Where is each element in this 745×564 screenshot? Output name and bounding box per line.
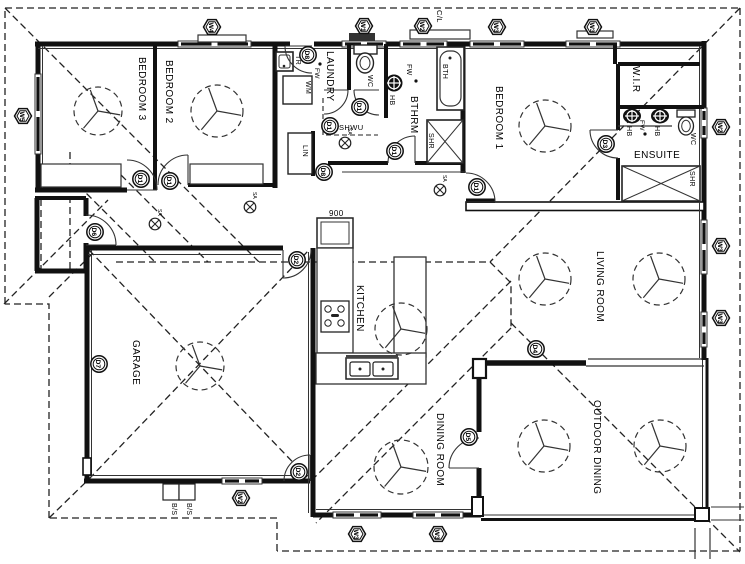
svg-text:900: 900 — [329, 209, 344, 218]
svg-text:D1: D1 — [355, 103, 362, 112]
laundry floor waste dot — [318, 62, 321, 65]
right exterior wall — [702, 41, 707, 360]
window tag W4 — [204, 20, 221, 35]
floor waste FW ensuite — [643, 132, 646, 135]
door tag D1 bedroom1 — [469, 179, 485, 195]
window tag W5 — [15, 109, 32, 124]
ceiling fan bedroom 3 — [74, 87, 122, 135]
shower SHR ensuite — [622, 166, 700, 201]
kitchen double sink — [346, 355, 398, 379]
garage right wall inner liner — [308, 252, 310, 513]
ensuite vanity edge — [618, 125, 672, 127]
svg-text:D1: D1 — [136, 175, 143, 184]
window W3 living lower — [701, 312, 707, 347]
toilet WC ensuite — [677, 110, 695, 135]
svg-text:D2: D2 — [292, 256, 299, 265]
svg-text:ENSUITE: ENSUITE — [634, 150, 680, 161]
laundry trough TR — [276, 52, 293, 71]
door tag D2 garage rear — [291, 464, 307, 480]
svg-text:SA: SA — [156, 209, 162, 216]
garage left wall — [85, 246, 90, 481]
ridge line — [116, 261, 490, 263]
svg-text:W3: W3 — [716, 314, 723, 324]
svg-text:W5: W5 — [18, 112, 25, 122]
smoke alarm living hall — [434, 175, 447, 196]
porch hip diagonal — [4, 200, 108, 304]
door tag D4 living — [528, 341, 544, 357]
svg-text:SHR: SHR — [427, 133, 434, 149]
corridor bulkhead line — [342, 171, 466, 173]
downpipe line right — [709, 528, 711, 559]
svg-text:WC: WC — [689, 133, 696, 145]
window W3 bedroom1 left — [470, 41, 524, 47]
svg-text:D6: D6 — [90, 228, 97, 237]
window tag W3 dining right — [430, 527, 447, 542]
svg-text:W3: W3 — [352, 530, 359, 540]
window W2 ensuite wc — [701, 108, 707, 138]
wc-bathroom divider wall — [384, 44, 388, 118]
bedroom1 west wall — [461, 44, 466, 173]
wc west wall — [347, 44, 351, 90]
dining-outdoor divider lower — [477, 468, 482, 517]
svg-text:HB: HB — [625, 126, 632, 137]
outdoor dining bottom edge liner — [481, 514, 703, 516]
door arc laundry external — [285, 46, 312, 73]
svg-text:D8: D8 — [319, 168, 326, 177]
svg-text:LAUNDRY: LAUNDRY — [324, 51, 335, 101]
svg-text:W3: W3 — [433, 530, 440, 540]
wir west wall upper — [613, 44, 617, 64]
ceiling fan dining room — [374, 440, 428, 494]
smoke alarm entry — [149, 209, 162, 230]
floor waste FW bathroom — [414, 79, 417, 82]
window tag W3 dining left — [349, 527, 366, 542]
kitchen bench west run — [317, 248, 353, 353]
door tag D8 hall — [316, 164, 332, 180]
porch bottom wall — [35, 269, 86, 274]
door arc bathroom — [388, 136, 415, 163]
svg-text:D8: D8 — [303, 51, 310, 60]
paving edge line upper — [711, 506, 744, 508]
door arc laundry-hall — [324, 90, 348, 114]
door tag D7 garage side — [91, 356, 107, 372]
door tag D6 entry — [87, 224, 103, 240]
C/L nib above bathroom window — [410, 30, 470, 39]
window tag W3 living lower — [713, 311, 730, 326]
linen cupboard — [288, 133, 312, 174]
svg-text:D1: D1 — [165, 177, 172, 186]
garage cross brace 1 — [89, 250, 309, 479]
toilet WC bathroom — [354, 45, 377, 73]
left exterior wall lower — [36, 154, 41, 192]
door arc ensuite — [590, 130, 618, 158]
door tag D1 bedroom2 — [162, 173, 178, 189]
svg-text:W3: W3 — [588, 23, 595, 33]
svg-text:FW: FW — [313, 68, 320, 79]
svg-text:DINING ROOM: DINING ROOM — [434, 413, 445, 486]
kitchen pantry column — [317, 218, 353, 248]
svg-text:HB: HB — [388, 95, 395, 106]
garage top wall — [84, 246, 283, 251]
ensuite west wall — [616, 158, 620, 200]
left exterior wall upper — [36, 44, 41, 74]
door arc dining-outdoor — [449, 438, 479, 468]
paving edge line lower — [711, 519, 744, 521]
svg-text:LIN: LIN — [301, 145, 308, 157]
hand basin HB ensuite left — [623, 109, 641, 124]
ceiling fan outdoor west — [518, 420, 570, 472]
svg-text:B/S: B/S — [170, 503, 177, 515]
roof outline right edge — [739, 8, 741, 551]
door tag D1 bedroom3 — [133, 171, 149, 187]
svg-text:D1: D1 — [472, 183, 479, 192]
svg-text:W2: W2 — [716, 123, 723, 133]
washing machine WM — [283, 76, 312, 104]
robe bedroom 3 — [41, 164, 121, 187]
svg-text:W3: W3 — [492, 23, 499, 33]
ceiling fan bedroom 1 — [519, 100, 571, 152]
valley corner connector garage — [49, 481, 87, 518]
valley line to kitchen wall — [313, 281, 511, 479]
hip line top-left — [5, 8, 259, 262]
hand basin HB bathroom — [386, 75, 403, 92]
outdoor corner jamb — [473, 359, 486, 378]
window tag W1 — [356, 19, 373, 34]
entry valley diagonal 1 — [71, 178, 155, 262]
wir south wall — [618, 62, 700, 66]
wc top nib — [349, 33, 375, 41]
outdoor dining bottom edge — [481, 518, 708, 521]
roof outline bottom edge — [277, 550, 740, 552]
door arc garage rear — [284, 455, 310, 481]
door tag D1 wc — [352, 99, 368, 115]
door arc bedroom3 — [127, 160, 157, 190]
svg-text:HB: HB — [653, 126, 660, 137]
window W5 bedroom3 — [35, 74, 41, 154]
door tag D3 ensuite — [598, 136, 614, 152]
door arc entry — [86, 215, 116, 245]
svg-text:WC: WC — [366, 75, 373, 87]
window tag W2 garage — [233, 491, 250, 506]
laundry dashed partition — [323, 98, 378, 135]
svg-text:SA: SA — [346, 128, 352, 135]
entry east wall lower — [84, 243, 89, 271]
svg-text:W1: W1 — [359, 22, 366, 32]
svg-text:D4: D4 — [531, 345, 538, 354]
bedroom3 wing bottom wall — [35, 188, 127, 193]
window W2 bathroom — [400, 41, 447, 47]
shower SHR bathroom — [427, 120, 463, 163]
downpipe line left — [694, 528, 696, 559]
svg-text:W2: W2 — [418, 22, 425, 32]
roof outline left lower step — [5, 304, 49, 518]
porch hip diagonal 2 — [49, 246, 100, 297]
svg-text:B/S: B/S — [185, 503, 192, 515]
svg-text:WM: WM — [304, 81, 311, 94]
bedroom3-bedroom2 divider wall — [153, 44, 157, 190]
dining-outdoor divider upper — [477, 362, 482, 432]
dining bottom wall inner liner — [316, 509, 479, 511]
window W3 bedroom1 right — [566, 41, 620, 47]
svg-text:LIVING ROOM: LIVING ROOM — [594, 251, 605, 322]
garage bottom wall inner liner — [89, 475, 308, 477]
top wall inner liner — [38, 48, 700, 50]
porch roof dashed vertical 2 — [69, 152, 71, 271]
outdoor dining right edge liner — [702, 358, 704, 516]
garage B/S meter boxes — [163, 484, 195, 500]
svg-text:BEDROOM 3: BEDROOM 3 — [136, 57, 147, 121]
svg-text:D1: D1 — [390, 147, 397, 156]
svg-text:D1: D1 — [325, 122, 332, 131]
ceiling fan living room west — [519, 253, 571, 305]
svg-text:BTHRM: BTHRM — [408, 96, 419, 134]
svg-text:OUTDOOR DINING: OUTDOOR DINING — [591, 400, 602, 495]
smoke alarm laundry hall — [339, 128, 352, 149]
outdoor SE corner jamb — [695, 508, 709, 521]
window tag W3 living upper — [713, 239, 730, 254]
roof outline top edge — [5, 7, 740, 9]
door arc wc — [354, 90, 379, 115]
bedroom1 door leaf cap — [466, 199, 495, 204]
window tag W2 bath — [415, 19, 432, 34]
cooktop — [321, 301, 349, 332]
svg-text:SA: SA — [441, 175, 447, 182]
garage right / kitchen west wall — [311, 248, 316, 517]
garage SW corner jamb — [83, 458, 91, 475]
bedroom2 window top nib — [198, 35, 246, 42]
bedroom2 bottom wall — [188, 183, 275, 187]
kitchen south bench — [316, 353, 426, 384]
door arc garage top — [283, 250, 311, 278]
kitchen island bench — [394, 257, 426, 357]
door tag D2 garage top — [289, 252, 305, 268]
porch left wall — [35, 198, 40, 271]
window W3 dining left — [333, 512, 381, 518]
entry valley diagonal 2 — [121, 175, 208, 262]
svg-text:D3: D3 — [601, 140, 608, 149]
ensuite north wall — [618, 105, 704, 109]
living bottom wall — [473, 360, 586, 366]
entry east wall upper — [84, 198, 89, 216]
ceiling fan garage — [176, 342, 224, 390]
bedroom2 east wall — [273, 44, 278, 188]
ceiling fan kitchen — [375, 303, 427, 355]
window W3 living upper — [701, 220, 707, 274]
svg-text:FW: FW — [405, 64, 412, 76]
hip line top-right — [490, 8, 740, 262]
window tag W2 right — [713, 120, 730, 135]
ceiling fan outdoor east — [634, 420, 686, 472]
svg-text:BTH: BTH — [441, 64, 448, 79]
top exterior wall west part — [35, 42, 290, 47]
left wall inner liner — [42, 46, 44, 188]
garage left wall inner liner — [91, 250, 93, 477]
roof outline step at garage — [49, 518, 277, 551]
door tag D1 laundry hall — [322, 118, 338, 134]
svg-text:SHR: SHR — [688, 171, 695, 187]
garage top wall inner liner — [88, 254, 281, 256]
ceiling fan bedroom 2 — [191, 85, 243, 137]
roof outline left edge — [4, 8, 6, 304]
svg-text:W4: W4 — [207, 23, 214, 33]
door tag D8 laundry — [300, 47, 316, 63]
door arc bedroom1 — [466, 173, 495, 202]
divider bottom jamb — [472, 497, 483, 516]
valley connector at ridge end — [490, 262, 511, 328]
living glass slider upper line — [588, 358, 702, 360]
svg-text:BEDROOM 2: BEDROOM 2 — [163, 60, 174, 124]
svg-text:SA: SA — [251, 192, 257, 199]
garage cross brace 2 — [89, 250, 309, 479]
dining bottom wall — [313, 513, 481, 518]
smoke alarm hall bedrooms — [244, 192, 257, 213]
linen east wall — [311, 131, 315, 176]
right wall inner liner — [699, 46, 701, 358]
hip line bottom-right — [511, 323, 740, 552]
porch top wall — [35, 196, 86, 200]
svg-text:C/L: C/L — [435, 10, 444, 23]
garage bottom wall — [84, 479, 310, 484]
window tag W3 bed1 right — [585, 20, 602, 35]
window W4 bedroom2 — [178, 41, 251, 47]
robe bedroom 2 — [190, 164, 263, 184]
window tag W3 bed1 left — [489, 20, 506, 35]
svg-text:D5: D5 — [464, 433, 471, 442]
svg-text:D2: D2 — [294, 468, 301, 477]
bath BTH — [437, 47, 464, 110]
valley line to dining corner — [316, 328, 511, 523]
corridor south wall channel — [466, 202, 704, 211]
wir west wall — [616, 64, 620, 130]
svg-text:BEDROOM 1: BEDROOM 1 — [493, 86, 504, 150]
svg-text:W.I.R: W.I.R — [630, 66, 641, 92]
living glass slider lower line — [586, 365, 704, 367]
door tag D1 bathroom — [387, 143, 403, 159]
svg-text:GARAGE: GARAGE — [130, 340, 141, 385]
bathroom bottom wall west — [328, 161, 388, 165]
window W2 garage rear — [222, 478, 262, 484]
window W3 dining right — [413, 512, 463, 518]
svg-text:W3: W3 — [716, 242, 723, 252]
window W1 laundry — [342, 41, 386, 47]
ceiling fan living room east — [633, 253, 685, 305]
bathroom bottom wall east — [415, 161, 463, 165]
door arc bedroom2 — [158, 155, 188, 185]
top exterior wall east part — [314, 42, 704, 47]
svg-text:W2: W2 — [236, 494, 243, 504]
svg-text:KITCHEN: KITCHEN — [354, 285, 365, 332]
wir top nib — [577, 31, 613, 38]
hand basin HB ensuite right — [651, 109, 669, 124]
porch roof dashed vertical 1 — [40, 199, 42, 271]
outdoor dining right edge — [706, 358, 709, 521]
door tag D5 dining — [461, 429, 477, 445]
svg-text:D7: D7 — [94, 360, 101, 369]
